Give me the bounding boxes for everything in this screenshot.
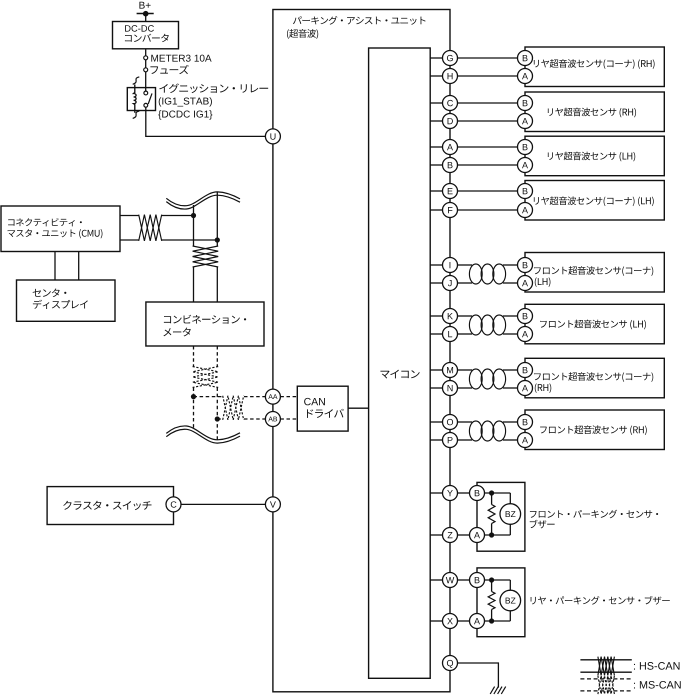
twisted pair MS-CAN horizontal xyxy=(223,396,244,420)
wire CMU CAN-H xyxy=(120,215,194,217)
pin V xyxy=(265,497,280,512)
pin U xyxy=(265,129,280,144)
junction buzzer bottom xyxy=(489,532,494,537)
junction MS-CAN L xyxy=(215,416,220,421)
twisted pair to front sensor 2 xyxy=(458,315,518,335)
ultrasonic sensor box 8 xyxy=(525,410,664,450)
CAN driver box xyxy=(297,386,348,431)
wire microcomputer to pin P xyxy=(430,439,442,441)
junction buzzer bottom xyxy=(489,618,494,623)
center display box xyxy=(17,280,116,321)
sensor pin A xyxy=(518,203,533,218)
wire microcomputer to pin Z xyxy=(430,534,442,536)
twisted pair to front sensor 1 xyxy=(458,264,518,284)
twisted pair to front sensor 3 xyxy=(458,369,518,389)
wire microcomputer to pin M xyxy=(430,369,442,371)
combination meter box xyxy=(146,302,264,346)
sensor pin A xyxy=(518,69,533,84)
wires pins to buzzer xyxy=(458,580,470,621)
wire Q to ground xyxy=(458,663,499,688)
wire microcomputer to pin L xyxy=(430,333,442,335)
buzzer resistor xyxy=(488,505,495,524)
wire microcomputer to pin F xyxy=(430,209,442,211)
sensor pin B xyxy=(518,363,533,378)
wire microcomputer to pin Y xyxy=(430,492,442,494)
sensor pin B xyxy=(518,184,533,199)
ultrasonic sensor box 2 xyxy=(525,92,664,132)
parking assist unit box xyxy=(273,10,450,692)
wire microcomputer to pin C xyxy=(430,102,442,104)
ultrasonic sensor box 4 xyxy=(525,181,664,221)
buzzer internal wires xyxy=(485,580,511,621)
wire CAN driver to microcomputer xyxy=(348,407,369,409)
sensor pin A xyxy=(518,433,533,448)
pin B xyxy=(443,158,458,173)
wire break bottom xyxy=(166,426,240,443)
sensor pin B xyxy=(518,96,533,111)
legend MS-CAN symbol xyxy=(580,679,631,691)
wire microcomputer to pin N xyxy=(430,387,442,389)
pin X xyxy=(443,614,458,629)
pin F xyxy=(443,203,458,218)
pin J xyxy=(443,276,458,291)
wires to rear sensor 2 xyxy=(458,103,518,121)
sensor pin A xyxy=(518,158,533,173)
MS-CAN dashed wires to junctions xyxy=(194,388,218,441)
ultrasonic sensor box 1 xyxy=(525,47,664,87)
center display label xyxy=(33,288,88,308)
ultrasonic sensor box 3 xyxy=(525,136,664,176)
wires twist to combination meter xyxy=(194,267,218,302)
parking assist unit label xyxy=(287,16,426,39)
buzzer resistor xyxy=(488,592,495,610)
MS-CAN dashed wires below meter xyxy=(194,346,218,367)
ultrasonic sensor box 7 label xyxy=(534,372,653,393)
wire microcomputer to pin K xyxy=(430,315,442,317)
sensor pin B xyxy=(518,51,533,66)
buzzer BZ xyxy=(500,590,521,611)
wire microcomputer to pin O xyxy=(430,421,442,423)
buzzer box xyxy=(477,482,525,551)
wire microcomputer to pin H xyxy=(430,75,442,77)
ignition relay box xyxy=(127,88,155,111)
pin H xyxy=(443,69,458,84)
ultrasonic sensor box 5 label xyxy=(534,266,653,287)
wire microcomputer to pin J xyxy=(430,282,442,284)
junction buzzer top xyxy=(489,490,494,495)
cluster switch label xyxy=(63,501,151,510)
twisted pair CMU HS-CAN xyxy=(139,215,162,241)
junction MS-CAN H xyxy=(191,394,196,399)
sensor pin A xyxy=(518,114,533,129)
ultrasonic sensor box 6 xyxy=(525,304,664,344)
wire microcomputer to pin W xyxy=(430,579,442,581)
fuse label xyxy=(150,65,188,74)
wire CMU CAN-L xyxy=(120,239,217,241)
wire C to V xyxy=(181,503,265,505)
buzzer label xyxy=(531,596,670,605)
pin E xyxy=(443,184,458,199)
combination meter label xyxy=(163,315,246,337)
junction HS-CAN H xyxy=(191,213,196,218)
twisted pair bus vertical xyxy=(193,246,219,267)
microcomputer label xyxy=(380,370,419,379)
DC-DC converter box xyxy=(113,22,179,49)
wire DC-DC to fuse xyxy=(145,49,147,56)
buzzer internal wires xyxy=(485,493,511,535)
relay label xyxy=(159,83,268,93)
ultrasonic sensor box 6 label xyxy=(540,320,646,330)
relay label IG1_STAB xyxy=(159,97,212,106)
pin W xyxy=(443,573,458,588)
pin C xyxy=(443,96,458,111)
dashed wire junction to AA xyxy=(194,396,266,398)
connectivity master unit CMU box xyxy=(1,206,120,252)
wires to rear sensor 3 xyxy=(458,147,518,165)
wires to rear sensor 1 xyxy=(458,58,518,76)
ultrasonic sensor box 2 label xyxy=(548,108,636,118)
pin O xyxy=(443,415,458,430)
sensor pin A xyxy=(518,276,533,291)
pin M xyxy=(443,363,458,378)
pin A xyxy=(443,140,458,155)
dashed wire junction to AB xyxy=(217,418,265,420)
pin Z xyxy=(443,528,458,543)
pin N xyxy=(443,381,458,396)
ultrasonic sensor box 8 label xyxy=(540,425,647,435)
legend HS-CAN symbol xyxy=(580,660,631,672)
sensor pin A xyxy=(518,327,533,342)
wire microcomputer to pin I xyxy=(430,264,442,266)
ultrasonic sensor box 7 xyxy=(525,358,664,398)
buzzer pins B/A xyxy=(470,486,485,543)
legend HS-CAN label xyxy=(634,662,680,670)
wire fuse to relay xyxy=(145,72,147,91)
twisted pair to front sensor 4 xyxy=(458,421,518,441)
wire microcomputer to pin X xyxy=(430,620,442,622)
dashed wire AA to CAN driver xyxy=(280,396,297,398)
twisted pair MS-CAN vertical xyxy=(193,367,219,388)
pin D xyxy=(443,114,458,129)
pin L xyxy=(443,327,458,342)
relay label DCDC IG1 xyxy=(158,110,212,119)
wire B+ feed bar xyxy=(137,11,154,22)
wire microcomputer to pin D xyxy=(430,120,442,122)
buzzer box xyxy=(477,568,525,637)
wires CMU to center display xyxy=(55,252,79,281)
buzzer BZ xyxy=(500,504,521,525)
CAN driver label xyxy=(304,398,344,418)
relay coil wire break bottom xyxy=(133,111,140,118)
dashed wire AB to CAN driver xyxy=(280,418,297,420)
buzzer label xyxy=(530,510,658,529)
relay coil xyxy=(134,85,137,113)
pin P xyxy=(443,433,458,448)
pin AA xyxy=(265,389,280,404)
sensor pin B xyxy=(518,415,533,430)
pin I xyxy=(443,258,458,273)
DC-DC converter label xyxy=(125,25,169,42)
wire break top xyxy=(166,192,240,209)
cluster switch box xyxy=(47,487,173,525)
sensor pin B xyxy=(518,309,533,324)
wires pins to buzzer xyxy=(458,493,470,535)
wire relay to pin U xyxy=(146,107,266,136)
buzzer pins B/A xyxy=(470,573,485,629)
ultrasonic sensor box 1 label xyxy=(534,59,655,69)
fuse label METER3 10A xyxy=(151,55,211,62)
CMU label xyxy=(8,218,103,238)
junction buzzer top xyxy=(489,577,494,582)
relay coil wire break top xyxy=(133,77,140,84)
pin AB xyxy=(265,412,280,427)
wire microcomputer to pin E xyxy=(430,190,442,192)
sensor pin A xyxy=(518,381,533,396)
wires to rear sensor 4 xyxy=(458,191,518,210)
wire microcomputer to pin B xyxy=(430,164,442,166)
sensor pin B xyxy=(518,258,533,273)
fuse METER3 10A xyxy=(144,56,148,72)
node B+ label xyxy=(139,2,150,9)
relay switch xyxy=(144,91,152,107)
wire microcomputer to pin G xyxy=(430,57,442,59)
ultrasonic sensor box 4 label xyxy=(534,196,654,206)
ground xyxy=(490,687,506,694)
pin K xyxy=(443,309,458,324)
ultrasonic sensor box 5 xyxy=(525,253,664,293)
microcomputer box xyxy=(369,48,431,678)
pin Y xyxy=(443,486,458,501)
pin G xyxy=(443,51,458,66)
pin C xyxy=(166,497,181,512)
junction HS-CAN L xyxy=(215,237,220,242)
HS-CAN bus vertical wires xyxy=(194,193,218,247)
pin Q xyxy=(443,656,458,671)
wire microcomputer to pin A xyxy=(430,146,442,148)
legend MS-CAN label xyxy=(634,681,681,689)
sensor pin B xyxy=(518,140,533,155)
ultrasonic sensor box 3 label xyxy=(548,152,635,162)
